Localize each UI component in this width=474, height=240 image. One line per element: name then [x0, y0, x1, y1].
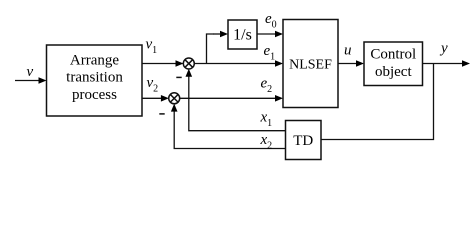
svg-text:Control: Control — [370, 47, 416, 63]
svg-text:Arrange: Arrange — [70, 53, 119, 69]
svg-text:TD: TD — [293, 133, 313, 149]
svg-text:object: object — [375, 64, 412, 80]
block 1/s — [228, 20, 257, 49]
svg-text:e1: e1 — [264, 43, 276, 63]
wire: branch from e1 up to 1/s input — [207, 34, 214, 64]
wire: y feedback down to TD — [321, 64, 434, 140]
wire: v2 from block to junction J2 — [142, 97, 162, 99]
svg-text:u: u — [344, 43, 352, 59]
wire: x1 from TD to J1 (up arrow) — [189, 76, 286, 131]
svg-text:y: y — [439, 41, 448, 57]
svg-text:process: process — [72, 87, 117, 103]
svg-text:NLSEF: NLSEF — [289, 58, 332, 73]
wire: x2 from TD to J2 (up arrow) — [174, 111, 285, 149]
wire: e1 from J1 to NLSEF — [194, 63, 276, 65]
svg-text:x1: x1 — [260, 110, 273, 130]
svg-text:transition: transition — [66, 70, 123, 86]
minus sign at J1 — [176, 76, 181, 78]
minus sign at J2 — [159, 113, 164, 115]
wire: v input with arrowhead — [15, 80, 40, 82]
svg-text:v2: v2 — [147, 75, 159, 95]
block TD — [286, 121, 322, 160]
svg-text:v: v — [27, 64, 34, 80]
summing junction J1 — [183, 58, 194, 69]
block Control object — [364, 42, 423, 86]
wire: v1 from block to junction J1 — [142, 63, 177, 65]
summing junction J2 — [169, 93, 180, 104]
wire: e2 from J2 to NLSEF — [180, 97, 277, 99]
svg-text:e0: e0 — [265, 11, 277, 31]
svg-text:1/s: 1/s — [233, 27, 252, 44]
wire: e0 from 1/s to NLSEF — [257, 33, 276, 35]
svg-text:e2: e2 — [261, 75, 273, 95]
wire: y output with arrowhead — [423, 63, 464, 65]
block NLSEF — [283, 20, 338, 108]
svg-text:v1: v1 — [146, 37, 158, 57]
block: Arrange transition process — [47, 45, 143, 116]
wire: u from NLSEF to Control object — [338, 63, 357, 65]
